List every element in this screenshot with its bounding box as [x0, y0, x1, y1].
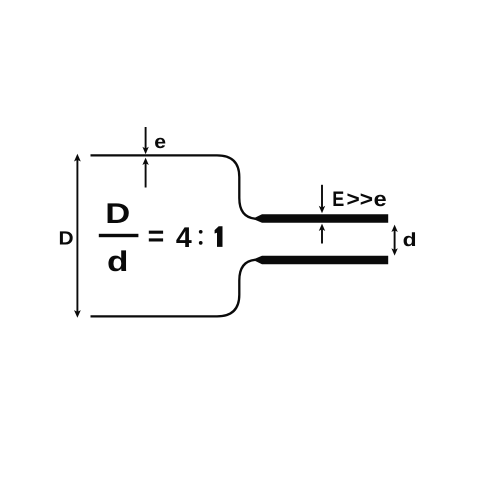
equation colon lower dot [199, 241, 203, 245]
dimension arrow d (vertical double arrow between recovered walls) [391, 225, 397, 256]
thick wall arrow E, upper (pointing down at thick wall) [319, 185, 325, 213]
equation digit 1 (custom glyph, no foot serif) [215, 226, 223, 247]
expanded tube bottom wall (thin line with S-curve into recovered tube) [91, 260, 259, 317]
recovered tube top wall (thick bar) [253, 214, 389, 223]
svg-text:E: E [332, 188, 344, 211]
svg-text:D: D [105, 198, 130, 230]
wall thickness arrow e, lower (pointing up at thin wall) [142, 158, 148, 188]
svg-text:>>: >> [347, 188, 374, 211]
wall thickness arrow e, upper (pointing down at thin wall) [142, 127, 148, 154]
svg-text:=: = [148, 221, 165, 253]
fraction bar [99, 234, 139, 237]
equation colon upper dot [199, 230, 203, 234]
svg-text:e: e [154, 132, 166, 153]
recovered tube bottom wall (thick bar) [253, 256, 389, 264]
dimension arrow D (vertical double arrow at left) [74, 154, 81, 318]
svg-text:d: d [107, 246, 129, 278]
svg-text:d: d [403, 230, 417, 251]
svg-text:D: D [59, 229, 74, 250]
svg-text:e: e [374, 188, 387, 211]
svg-text:4: 4 [176, 222, 192, 254]
thick wall arrow E, lower (pointing up at thick wall) [319, 224, 325, 244]
expanded tube top wall (thin line with S-curve into recovered tube) [91, 155, 259, 218]
